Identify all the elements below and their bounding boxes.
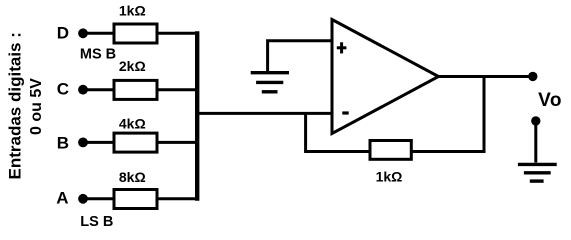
svg-text:4kΩ: 4kΩ — [119, 115, 146, 131]
svg-text:Vo: Vo — [538, 90, 562, 111]
wire D dot to R1 — [86, 32, 115, 35]
wire inverting input down to feedback — [304, 112, 307, 152]
svg-text:2kΩ: 2kΩ — [119, 58, 146, 74]
svg-text:1kΩ: 1kΩ — [119, 3, 146, 19]
wire feedback resistor to output node — [411, 150, 486, 153]
wire A dot to R4 — [86, 197, 115, 200]
wire to feedback resistor — [304, 150, 370, 153]
output terminal dot — [528, 72, 537, 81]
wire R4 to bus — [157, 197, 197, 200]
op-amp minus sign — [342, 111, 348, 114]
svg-text:0 ou 5V: 0 ou 5V — [28, 78, 45, 135]
wire R1 to bus — [157, 32, 197, 35]
ground (output reference) — [518, 164, 557, 181]
resistor R2 2kOhm box — [114, 80, 157, 99]
wire B dot to R3 — [86, 141, 115, 144]
resistor R1 1kOhm box — [114, 24, 157, 43]
ground (non-inverting input) — [251, 73, 289, 92]
svg-text:Entradas digitais :: Entradas digitais : — [6, 32, 25, 179]
resistor R4 8kOhm box — [114, 190, 157, 209]
ground terminal dot — [531, 116, 540, 125]
node A terminal dot — [78, 194, 88, 204]
node D terminal dot — [78, 28, 88, 38]
svg-text:MS B: MS B — [80, 47, 116, 63]
svg-text:C: C — [57, 80, 69, 99]
resistor R3 4kOhm box — [114, 133, 157, 152]
wire non-inverting input to ground — [268, 41, 334, 71]
op-amp plus sign — [337, 42, 347, 53]
summing bus wire (vertical) — [195, 31, 199, 201]
node C terminal dot — [78, 85, 88, 95]
node B terminal dot — [78, 138, 88, 148]
svg-text:B: B — [57, 134, 69, 153]
wire R3 to bus — [157, 141, 197, 144]
wire ground dot to ground — [534, 121, 537, 163]
svg-text:1kΩ: 1kΩ — [376, 169, 403, 185]
svg-text:A: A — [56, 188, 68, 207]
wire op-amp output — [436, 75, 533, 78]
wire R2 to bus — [157, 88, 197, 91]
feedback resistor R5 1kOhm box — [370, 141, 411, 160]
op-amp U1 triangle — [332, 20, 439, 134]
wire output junction (vertical) — [483, 77, 486, 152]
wire bus to inverting input — [195, 112, 334, 115]
wire C dot to R2 — [86, 88, 115, 91]
svg-text:LS B: LS B — [80, 214, 113, 230]
svg-text:D: D — [57, 23, 69, 42]
svg-text:8kΩ: 8kΩ — [119, 169, 146, 185]
